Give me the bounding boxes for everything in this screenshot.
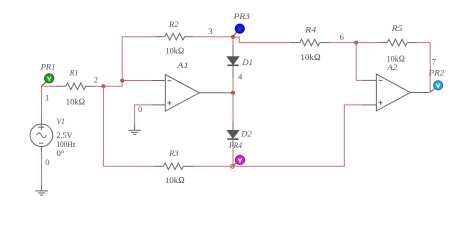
op-amp A1 output pin to node 4: [199, 92, 231, 94]
svg-text:D2: D2: [240, 128, 252, 138]
svg-text:R1: R1: [69, 68, 79, 78]
diode D2: [227, 121, 238, 147]
svg-text:10kΩ: 10kΩ: [166, 45, 185, 55]
wire node6 to R5: [356, 42, 377, 44]
svg-text:A2: A2: [386, 62, 398, 72]
svg-text:R3: R3: [168, 148, 178, 158]
wire node1: V1 top to R1 left: [42, 86, 57, 119]
probe PR4: [232, 155, 244, 166]
svg-text:6: 6: [340, 32, 345, 42]
svg-text:7: 7: [432, 57, 437, 67]
svg-text:4: 4: [238, 72, 243, 82]
svg-text:2: 2: [94, 75, 98, 85]
svg-text:PR3: PR3: [233, 11, 250, 21]
AC source V1: [30, 124, 53, 147]
wire D1 to node 4: [232, 78, 234, 93]
wire V1 bottom to ground: [40, 147, 42, 152]
bottom node junction: [231, 164, 235, 168]
probe PR2: [430, 81, 443, 92]
svg-text:10kΩ: 10kΩ: [66, 96, 86, 106]
wire R3 left up to node 2: [103, 86, 153, 166]
resistor R5: [377, 39, 417, 46]
svg-text:1: 1: [45, 93, 49, 103]
svg-text:PR4: PR4: [228, 140, 242, 150]
node 4 junction: [231, 91, 235, 95]
svg-text:R5: R5: [390, 23, 403, 33]
svg-text:0°: 0°: [57, 148, 65, 158]
resistor R4: [290, 39, 330, 46]
op-amp A1: [165, 75, 199, 112]
resistor R3: [154, 163, 194, 170]
wire R2 to node 3: [194, 36, 233, 38]
wire bottom rail to R3: [194, 165, 233, 167]
A2 non-inverting input stub: [362, 104, 376, 106]
ground at V1: [35, 186, 48, 196]
resistor R2: [155, 33, 193, 40]
svg-text:10kΩ: 10kΩ: [300, 52, 321, 62]
svg-text:3: 3: [208, 26, 212, 36]
svg-text:PR2: PR2: [428, 67, 445, 77]
diode D1: [227, 44, 238, 78]
probe PR3: [233, 24, 244, 37]
wire R4 to node 6: [330, 42, 356, 44]
wire R5 right down to A2 output node 7: [417, 43, 430, 92]
op-amp A2 output pin: [410, 92, 428, 94]
svg-text:A1: A1: [176, 60, 189, 70]
wire ground to A1 non-inverting input: [135, 105, 152, 124]
svg-text:0: 0: [138, 104, 142, 114]
svg-text:PR1: PR1: [40, 61, 56, 71]
wire R2 branch up: [122, 37, 155, 81]
wire node4 to D2: [232, 93, 234, 121]
node 2 junction: [101, 84, 105, 88]
wire node2 jog to A1 inverting input: [103, 81, 151, 87]
svg-text:D1: D1: [241, 57, 253, 67]
svg-text:V1: V1: [57, 116, 65, 126]
wire node3 jog to R4: [233, 37, 290, 43]
ground at A1: [128, 124, 141, 135]
wire D2 to bottom node: [232, 147, 234, 166]
wire node3 to D1: [232, 37, 234, 45]
A2 inverting input stub: [362, 79, 376, 81]
svg-text:0: 0: [45, 157, 49, 167]
wire bottom node to A2 non-inverting input: [232, 105, 362, 166]
A1 inverting input stub: [151, 80, 165, 82]
probe PR1: [42, 74, 54, 87]
op-amp A2: [376, 74, 410, 111]
svg-text:10kΩ: 10kΩ: [165, 175, 185, 185]
A1 non-inverting input stub: [151, 104, 165, 106]
wire A2 output to node 7 corner: [428, 92, 430, 94]
svg-text:R2: R2: [168, 19, 179, 29]
node 6 junction: [354, 41, 358, 45]
junction at R2 tap: [120, 79, 124, 83]
resistor R1: [57, 83, 95, 90]
svg-text:R4: R4: [304, 25, 317, 35]
node 3 junction: [231, 35, 235, 39]
wire node6 down to A2 inverting input: [356, 43, 362, 81]
wire R1 to node 2: [95, 85, 104, 87]
